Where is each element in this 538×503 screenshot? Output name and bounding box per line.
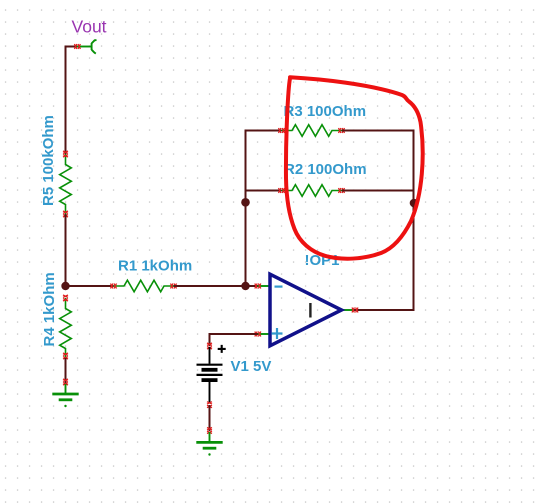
op-amp U1 triangle body [270, 274, 342, 346]
resistor R4 (vertical) [60, 298, 72, 358]
svg-text:Vout: Vout [72, 17, 107, 37]
wire right feedback vertical [413, 130, 415, 311]
resistor R3 (horizontal) [282, 125, 342, 137]
pin marks battery top [207, 343, 212, 349]
wire Vout stub horizontal [66, 46, 79, 48]
wire R4 to ground [65, 358, 67, 383]
op-amp internal bar [309, 303, 311, 318]
wire inverting node to op-amp [246, 285, 259, 287]
pin marks R5 top [63, 151, 68, 157]
wire op-amp plus input to battery corner [210, 334, 259, 346]
wire battery to ground [209, 405, 211, 431]
ground symbol left [52, 384, 78, 407]
wire R2 row right [342, 190, 414, 192]
wire node to R1 [66, 285, 114, 287]
pin marks op-amp output [352, 308, 358, 313]
op-amp U1 pin stub non-inverting [258, 333, 271, 335]
resistor R5 (vertical) [60, 154, 72, 214]
junction on right feedback vertical [410, 199, 419, 208]
red annotation circle [286, 77, 423, 258]
wire left column middle (R5 to node) [65, 214, 67, 286]
pin marks R1 right [171, 284, 177, 289]
pin marks op-amp non-inverting [255, 332, 261, 337]
pin marks R4 top [63, 295, 68, 301]
op-amp U1 pin stub output [342, 309, 354, 311]
pin marks R5 bottom [63, 211, 68, 217]
ground symbol bottom [196, 432, 222, 456]
junction node at inverting input [241, 282, 249, 290]
pin marks ground left [63, 379, 68, 385]
wire R3 row left [245, 130, 282, 132]
terminal Vout (green pin lead) [77, 46, 92, 48]
svg-text:R1 1kOhm: R1 1kOhm [118, 258, 192, 275]
pin marks R3 right [339, 128, 345, 133]
resistor R1 (horizontal) [114, 280, 174, 292]
op-amp plus sign [272, 328, 283, 339]
pin marks battery bottom [207, 402, 212, 408]
pin marks R2 left [279, 188, 285, 193]
wire R3 row right [342, 130, 415, 132]
svg-text:V1 5V: V1 5V [231, 358, 272, 375]
wire R1 to inverting node [174, 285, 246, 287]
pin marks R1 left [111, 284, 117, 289]
pin marks R4 bottom [63, 353, 68, 359]
op-amp minus sign [275, 286, 283, 288]
pin marks ground bottom [207, 428, 212, 434]
pin marks R3 left [279, 128, 285, 133]
pin marks R2 right [339, 188, 345, 193]
wire op-amp output to right vertical [354, 309, 415, 311]
svg-text:R2 100Ohm: R2 100Ohm [284, 161, 367, 178]
junction node at left column / R1 [61, 282, 69, 290]
svg-text:R3 100Ohm: R3 100Ohm [284, 103, 367, 120]
junction on left feedback vertical [241, 198, 250, 207]
resistor R2 (horizontal) [282, 185, 342, 197]
terminal Vout bracket symbol [92, 40, 97, 54]
pin marks op-amp inverting [255, 284, 261, 289]
op-amp U1 pin stub inverting [258, 285, 271, 287]
wire R2 row left [246, 190, 282, 192]
wire feedback left vertical [245, 130, 247, 287]
wire left column top (Vout corner down to R5) [65, 47, 66, 155]
pin marks Vout terminal [74, 44, 80, 49]
svg-text:R4 1kOhm: R4 1kOhm [41, 272, 58, 346]
battery V1 symbol [197, 347, 223, 403]
battery V1 plus sign [218, 345, 226, 353]
svg-text:R5 100kOhm: R5 100kOhm [40, 115, 57, 206]
